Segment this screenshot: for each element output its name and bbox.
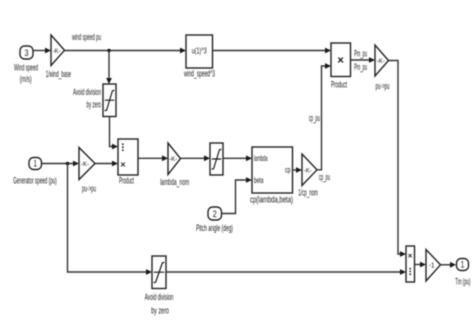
gain U2 pu->pu (79, 148, 96, 194)
svg-text:x: x (408, 252, 413, 259)
gain U3 lambda_nom (160, 143, 189, 187)
node junction on generator speed wire (66, 162, 70, 166)
inport 3 Wind speed (m/s) (14, 46, 38, 84)
svg-text:-K-: -K- (169, 156, 177, 163)
svg-text:2: 2 (213, 209, 217, 219)
svg-text:-K-: -K- (53, 48, 61, 55)
svg-text:wind_speed^3: wind_speed^3 (183, 68, 215, 78)
wire gain -1 to outport Tm (441, 262, 457, 268)
wire saturation1 to Product divide input 1 (110, 117, 119, 150)
wire port1 to gain pu->pu (42, 161, 80, 167)
svg-text:Wind speed: Wind speed (14, 63, 38, 73)
svg-text:by zero: by zero (151, 305, 169, 315)
svg-text:by zero: by zero (87, 100, 102, 110)
wire port3 to gain 1/wind_base (34, 48, 52, 54)
svg-text:Pitch angle (deg): Pitch angle (deg) (196, 223, 233, 233)
wire generator speed branch down and along bottom to saturation 3 (68, 164, 153, 275)
svg-text:pu->pu: pu->pu (82, 184, 96, 194)
svg-text:cp_pu: cp_pu (309, 113, 320, 123)
svg-text:cp: cp (285, 166, 291, 175)
node junction on wind speed pu wire (107, 49, 111, 53)
gain U6 -1 (426, 250, 441, 282)
wire saturation3 to divide bottom input (167, 269, 407, 275)
svg-text:lambda: lambda (254, 154, 268, 163)
subsystem cp(lambda,beta) (250, 147, 293, 204)
svg-text:-K-: -K- (304, 168, 312, 175)
svg-text:3: 3 (25, 48, 29, 58)
svg-text:pu->pu: pu->pu (376, 81, 390, 91)
gain U4 1/cp_nom (298, 154, 318, 197)
wire wind_speed^3 to Product x input (213, 48, 332, 54)
svg-text:Avoid division: Avoid division (145, 292, 174, 302)
svg-text:1: 1 (33, 159, 37, 169)
svg-text:Pm_pu: Pm_pu (354, 49, 367, 59)
saturation block Avoid division by zero 1 (73, 84, 116, 117)
saturation block Avoid division by zero 3 (145, 256, 174, 315)
svg-text:cp_pu: cp_pu (319, 172, 330, 182)
svg-text:Pm_pu: Pm_pu (354, 62, 367, 72)
svg-text:cp(lambda,beta): cp(lambda,beta) (250, 194, 293, 204)
wire divide to gain -1 (415, 262, 427, 268)
product divide block Product (middle) (118, 139, 138, 186)
wire Product to gain lambda_nom (138, 155, 168, 161)
svg-text:lambda_nom: lambda_nom (160, 177, 189, 187)
wire gain pu->pu to Product divide x input (95, 161, 118, 167)
wire wind speed pu (gain to u(1)^3) (65, 32, 187, 54)
wire gain pu->pu down right side to divide x input (389, 61, 407, 257)
wire port2 to beta input (222, 177, 253, 213)
wire cp output to gain 1/cp_nom (293, 167, 303, 173)
wire saturation2 to cp(lambda,beta) lambda input (224, 155, 253, 161)
gain U5 pu->pu (top right) (375, 45, 390, 91)
svg-text:u(1)^3: u(1)^3 (192, 47, 207, 56)
saturation block 2 (210, 143, 223, 175)
svg-text:Generator speed (pu): Generator speed (pu) (13, 176, 57, 186)
wire branch down to Avoid division by zero 1 (106, 51, 112, 85)
svg-text:-K-: -K- (377, 58, 385, 65)
wire cp_pu from 1/cp_nom up to Product second input (309, 63, 331, 182)
svg-text:1: 1 (461, 260, 465, 270)
wire lambda_nom to saturation 2 (181, 155, 211, 161)
svg-text:Tm (pu): Tm (pu) (455, 276, 470, 286)
fcn block u(1)^3 wind_speed^3 (183, 35, 215, 78)
product block Product (top) (331, 43, 351, 89)
inport 2 Pitch angle (deg) (196, 207, 233, 233)
outport 1 Tm (pu) (455, 259, 470, 287)
svg-text:Product: Product (119, 176, 134, 186)
svg-text:beta: beta (254, 176, 264, 185)
svg-text:Product: Product (331, 79, 347, 89)
svg-text:x: x (121, 161, 126, 168)
svg-text:x: x (337, 55, 344, 65)
product divide block (bottom right) (406, 246, 415, 282)
svg-text:wind speed pu: wind speed pu (72, 32, 101, 42)
svg-text:1/wind_base: 1/wind_base (46, 69, 71, 79)
svg-text:Avoid division: Avoid division (73, 87, 101, 97)
svg-text:-K-: -K- (81, 161, 89, 168)
svg-text:-1: -1 (429, 262, 435, 269)
gain U1 1/wind_base (46, 35, 71, 79)
svg-text:1/cp_nom: 1/cp_nom (298, 187, 318, 197)
inport 1 Generator speed (pu) (13, 158, 57, 186)
wire Pm_pu Product to gain pu->pu (top right) (351, 49, 376, 72)
svg-text:(m/s): (m/s) (20, 74, 32, 84)
